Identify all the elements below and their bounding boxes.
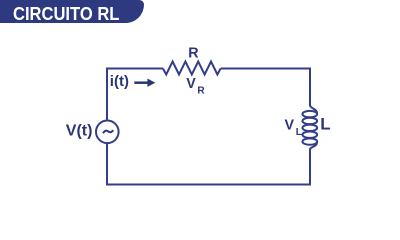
wire right upper [309, 68, 311, 107]
svg-text:R: R [188, 46, 199, 62]
current arrow head [147, 79, 155, 87]
svg-text:V: V [285, 118, 295, 134]
wire bottom [106, 184, 311, 186]
svg-text:V: V [186, 76, 196, 92]
inductor L1 loop 2 [302, 118, 317, 124]
inductor L1 top hook [310, 105, 317, 113]
svg-text:L: L [320, 115, 330, 134]
wire top-right segment [221, 68, 311, 70]
current arrow i(t) shaft [134, 81, 148, 84]
inductor L1 loop 3 [302, 125, 317, 131]
title banner CIRCUITO RL [0, 0, 144, 23]
inductor L1 loop 4 [302, 132, 317, 138]
svg-text:V(t): V(t) [66, 122, 93, 139]
resistor R1 zigzag [163, 62, 221, 75]
svg-text:L: L [296, 127, 302, 138]
voltage source V1 circle [96, 121, 119, 144]
wire left upper [106, 68, 108, 121]
wire right lower [309, 149, 311, 186]
voltage source sine tilde [103, 130, 113, 133]
svg-text:i(t): i(t) [110, 73, 129, 90]
inductor L1 bottom hook [310, 143, 317, 150]
wire left lower [106, 143, 108, 186]
svg-text:R: R [197, 86, 205, 97]
inductor L1 loop 5 [302, 138, 317, 144]
wire top-left segment [107, 68, 163, 70]
inductor L1 loop 1 [302, 111, 317, 117]
